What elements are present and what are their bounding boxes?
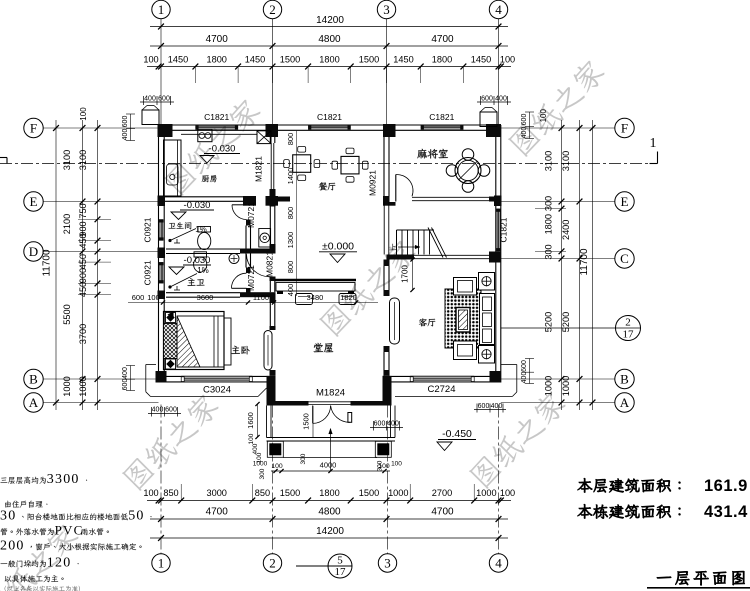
svg-text:F: F <box>30 121 37 136</box>
svg-text:C1821: C1821 <box>429 112 454 122</box>
svg-text:B: B <box>29 372 38 387</box>
svg-text:-0.030: -0.030 <box>209 144 236 155</box>
svg-text:100: 100 <box>147 293 160 302</box>
svg-text:11700: 11700 <box>42 249 53 277</box>
svg-text:14200: 14200 <box>316 15 344 26</box>
svg-text:5200: 5200 <box>561 312 571 332</box>
svg-text:450: 450 <box>78 254 88 269</box>
svg-text:1800: 1800 <box>206 55 226 65</box>
svg-text:30: 30 <box>0 509 16 524</box>
svg-text:300: 300 <box>259 468 266 479</box>
svg-text:1: 1 <box>158 556 165 571</box>
svg-text:3: 3 <box>384 556 391 571</box>
svg-text:17: 17 <box>335 566 347 578</box>
svg-text:200: 200 <box>0 539 25 554</box>
svg-text:400: 400 <box>491 403 503 410</box>
svg-text:M1821: M1821 <box>254 156 264 182</box>
svg-text:1%: 1% <box>197 266 209 275</box>
svg-text:11700: 11700 <box>579 248 590 276</box>
svg-text:1100: 1100 <box>253 293 269 302</box>
svg-text:1300: 1300 <box>286 232 295 249</box>
svg-text:2100: 2100 <box>62 214 72 234</box>
svg-text:1: 1 <box>158 2 165 17</box>
svg-text:PVC: PVC <box>55 523 84 538</box>
svg-text:4800: 4800 <box>318 507 341 518</box>
svg-text:E: E <box>621 194 629 209</box>
svg-text:4700: 4700 <box>431 34 454 45</box>
svg-text:161.9: 161.9 <box>704 477 748 495</box>
svg-text:100: 100 <box>500 488 515 498</box>
svg-text:4700: 4700 <box>206 34 229 45</box>
svg-text:1500: 1500 <box>302 413 311 430</box>
svg-text:100: 100 <box>391 461 402 468</box>
svg-text:850: 850 <box>163 488 178 498</box>
svg-text:3600: 3600 <box>197 293 214 302</box>
svg-text:F: F <box>621 121 628 136</box>
svg-text:M0721: M0721 <box>246 202 256 228</box>
svg-text:100: 100 <box>143 488 158 498</box>
svg-text:450: 450 <box>78 233 88 248</box>
svg-text:100: 100 <box>500 55 515 65</box>
svg-text:3: 3 <box>383 2 390 17</box>
svg-text:1500: 1500 <box>359 55 379 65</box>
svg-text:100: 100 <box>539 108 548 122</box>
svg-text:3480: 3480 <box>307 293 324 302</box>
svg-text:400: 400 <box>286 284 295 297</box>
svg-text:1%: 1% <box>195 225 207 234</box>
svg-text:1600: 1600 <box>246 412 255 429</box>
svg-text:4800: 4800 <box>318 34 341 45</box>
svg-text:300: 300 <box>377 460 384 471</box>
svg-text:600: 600 <box>122 116 129 128</box>
svg-text:-0.450: -0.450 <box>442 428 472 440</box>
svg-text:C0921: C0921 <box>143 260 153 285</box>
svg-text:600: 600 <box>481 96 493 103</box>
svg-text:1700: 1700 <box>401 265 410 283</box>
svg-text:1000: 1000 <box>561 376 571 396</box>
svg-text:2: 2 <box>625 317 631 329</box>
svg-text:1000: 1000 <box>62 376 72 396</box>
svg-text:431.4: 431.4 <box>704 503 748 521</box>
svg-text:2700: 2700 <box>432 488 452 498</box>
svg-text:3000: 3000 <box>206 488 226 498</box>
svg-text:M0721: M0721 <box>246 265 256 291</box>
svg-text:1000: 1000 <box>388 488 408 498</box>
svg-text:100: 100 <box>79 107 88 121</box>
svg-text:1800: 1800 <box>319 488 339 498</box>
svg-text:900: 900 <box>78 268 88 283</box>
svg-text:4: 4 <box>495 2 502 17</box>
svg-text:±0.000: ±0.000 <box>322 241 354 253</box>
svg-text:1500: 1500 <box>359 488 379 498</box>
svg-text:300: 300 <box>544 244 554 259</box>
svg-text:5: 5 <box>337 555 343 567</box>
svg-text:1800: 1800 <box>319 55 339 65</box>
svg-text:M1824: M1824 <box>316 388 345 399</box>
svg-text:600: 600 <box>122 379 129 391</box>
svg-text:50: 50 <box>128 509 144 524</box>
svg-text:750: 750 <box>78 203 88 218</box>
svg-text:3100: 3100 <box>62 150 72 170</box>
svg-text:1450: 1450 <box>393 55 413 65</box>
svg-text:400: 400 <box>152 407 164 414</box>
svg-text:300: 300 <box>300 453 307 464</box>
svg-text:4000: 4000 <box>320 461 337 470</box>
svg-text:400: 400 <box>387 421 399 428</box>
svg-text:-0.030: -0.030 <box>184 255 211 266</box>
svg-text:400: 400 <box>122 367 129 379</box>
svg-text:1000: 1000 <box>544 376 554 396</box>
svg-text:2: 2 <box>269 2 276 17</box>
svg-text:1800: 1800 <box>432 55 452 65</box>
svg-text:1000: 1000 <box>476 488 496 498</box>
svg-text:600: 600 <box>132 293 145 302</box>
svg-text:600: 600 <box>521 360 528 372</box>
svg-text:600: 600 <box>165 407 177 414</box>
svg-text:1000: 1000 <box>253 461 268 468</box>
svg-text:1400: 1400 <box>286 168 295 185</box>
svg-text:1500: 1500 <box>280 488 300 498</box>
svg-text:400: 400 <box>521 127 528 139</box>
svg-text:C1821: C1821 <box>204 112 229 122</box>
svg-text:14200: 14200 <box>316 526 344 537</box>
svg-text:3100: 3100 <box>561 151 571 171</box>
svg-text:600: 600 <box>374 421 386 428</box>
svg-text:17: 17 <box>623 329 635 341</box>
svg-text:400: 400 <box>521 372 528 384</box>
svg-text:4700: 4700 <box>431 507 454 518</box>
svg-text:M0921: M0921 <box>368 170 378 196</box>
svg-text:1800: 1800 <box>544 214 554 234</box>
svg-text:C1821: C1821 <box>317 112 342 122</box>
svg-text:C0921: C0921 <box>143 217 153 242</box>
svg-text:800: 800 <box>286 133 295 146</box>
svg-text:400: 400 <box>495 96 507 103</box>
svg-text:A: A <box>620 395 630 410</box>
svg-text:E: E <box>30 194 38 209</box>
svg-text:5500: 5500 <box>62 304 72 324</box>
svg-text:2: 2 <box>269 556 276 571</box>
svg-text:100: 100 <box>143 55 158 65</box>
svg-text:600: 600 <box>158 96 170 103</box>
svg-text:4: 4 <box>495 556 502 571</box>
svg-text:3100: 3100 <box>544 151 554 171</box>
svg-text:C2724: C2724 <box>428 384 456 395</box>
svg-text:300: 300 <box>544 196 554 211</box>
svg-text:800: 800 <box>286 261 295 274</box>
svg-text:2400: 2400 <box>561 220 571 240</box>
svg-text:C: C <box>620 251 629 266</box>
svg-text:4700: 4700 <box>206 507 229 518</box>
svg-text:A: A <box>29 395 39 410</box>
svg-text:400: 400 <box>122 129 129 141</box>
svg-text:B: B <box>620 372 629 387</box>
svg-text:400: 400 <box>144 96 156 103</box>
svg-text:1450: 1450 <box>168 55 188 65</box>
svg-text:1820: 1820 <box>340 293 357 302</box>
svg-text:5200: 5200 <box>544 312 554 332</box>
svg-text:850: 850 <box>255 488 270 498</box>
svg-text:1: 1 <box>650 136 657 151</box>
svg-text:M0821: M0821 <box>264 251 274 277</box>
svg-text:800: 800 <box>286 207 295 220</box>
svg-text:100: 100 <box>248 433 255 444</box>
svg-text:1000: 1000 <box>78 376 88 396</box>
svg-text:1450: 1450 <box>471 55 491 65</box>
svg-text:-0.030: -0.030 <box>184 200 211 211</box>
svg-text:600: 600 <box>521 114 528 126</box>
svg-text:3100: 3100 <box>78 150 88 170</box>
svg-text:C1821: C1821 <box>499 217 509 242</box>
svg-text:600: 600 <box>478 403 490 410</box>
svg-text:3300: 3300 <box>47 472 80 487</box>
svg-text:120: 120 <box>47 556 72 571</box>
svg-text:D: D <box>29 244 38 259</box>
svg-text:1450: 1450 <box>245 55 265 65</box>
svg-text:100: 100 <box>271 463 283 470</box>
svg-text:1500: 1500 <box>280 55 300 65</box>
svg-text:C3024: C3024 <box>203 385 231 396</box>
svg-text:3700: 3700 <box>78 324 88 344</box>
